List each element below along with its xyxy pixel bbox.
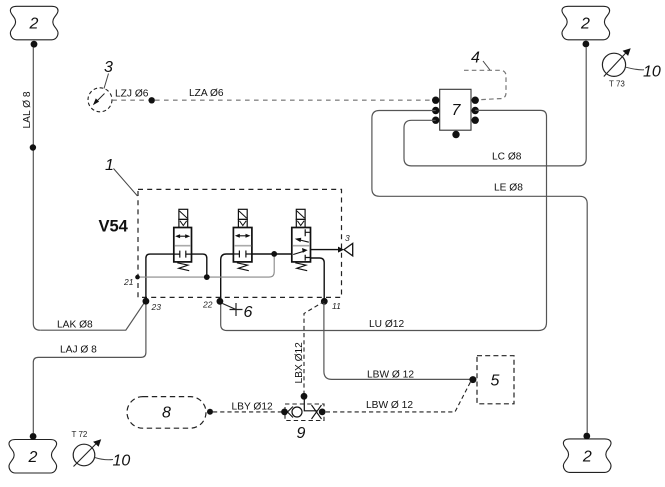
solenoid coil C — [296, 209, 305, 219]
svg-text:11: 11 — [332, 301, 341, 311]
junction dot LZJ/LZA — [149, 97, 155, 103]
shuttle left seat — [288, 407, 294, 418]
svg-text:7: 7 — [452, 102, 462, 119]
svg-text:LE Ø8: LE Ø8 — [494, 183, 523, 194]
wire LAK horizontal to node 23 — [40, 303, 144, 330]
junction dot 21 end — [135, 275, 140, 280]
node dot bottom-left — [30, 433, 37, 440]
blocked port C bottom — [305, 255, 310, 261]
flow arrow C top — [300, 240, 309, 242]
double arrow B — [237, 235, 248, 237]
wire valve B left port to node 22 — [221, 254, 234, 299]
wire LE from component 7 to bottom-right accumulator — [372, 111, 587, 434]
gauge 10 top-right (T73) — [602, 53, 625, 76]
svg-text:LZA Ø6: LZA Ø6 — [189, 88, 224, 99]
svg-text:9: 9 — [297, 425, 306, 442]
svg-text:LAK Ø8: LAK Ø8 — [57, 320, 93, 331]
wire valve C exhaust — [311, 249, 339, 251]
wire LBW dashed from shuttle valve to component 5 — [326, 381, 471, 412]
node dot top-right — [583, 41, 590, 48]
component 8 dashed reservoir — [127, 397, 206, 429]
svg-text:LZJ Ø6: LZJ Ø6 — [115, 89, 149, 100]
pin dots left of 7 — [432, 97, 439, 104]
svg-text:LBY Ø12: LBY Ø12 — [232, 402, 273, 413]
svg-text:LC Ø8: LC Ø8 — [492, 152, 522, 163]
spring B — [237, 263, 249, 271]
svg-text:LU Ø12: LU Ø12 — [369, 319, 404, 330]
node dot component 8 — [207, 409, 213, 415]
leader to 10 — [95, 458, 113, 460]
node 23 — [143, 298, 150, 305]
position divider A — [175, 245, 191, 247]
wire valve A right port to line 21 — [192, 254, 207, 275]
svg-text:2: 2 — [28, 449, 38, 466]
svg-text:21: 21 — [123, 277, 134, 287]
wire line 21 (gray pilot line) — [138, 256, 275, 278]
wire LZA dashed to component 7 — [155, 99, 432, 101]
exhaust arrowhead — [338, 247, 344, 253]
svg-text:4: 4 — [471, 50, 480, 67]
svg-text:LAL Ø 8: LAL Ø 8 — [22, 91, 33, 128]
pin dots right of 7 — [472, 97, 479, 104]
wire LAL vertical from top-left accumulator — [33, 48, 40, 331]
svg-text:8: 8 — [162, 405, 171, 422]
blocked ports A — [174, 251, 192, 258]
shuttle outlet line — [304, 399, 317, 411]
double arrow A — [178, 235, 188, 237]
svg-text:T 72: T 72 — [72, 430, 88, 439]
svg-text:5: 5 — [491, 373, 500, 390]
junction dot valve B/C line — [271, 251, 277, 257]
svg-text:10: 10 — [643, 64, 661, 81]
shuttle right seat X — [312, 405, 322, 419]
shuttle ball — [292, 407, 302, 417]
svg-text:3: 3 — [345, 233, 350, 243]
leader to 10 — [626, 67, 644, 70]
solenoid coil A — [179, 209, 188, 219]
wire LZJ dashed — [112, 99, 151, 101]
svg-text:V54: V54 — [99, 218, 129, 236]
flow arrow C bottom — [293, 252, 303, 255]
position divider C — [293, 245, 310, 247]
accumulator 2 (top-left) — [10, 6, 58, 40]
component 3 (pilot/sensor circle, dashed) — [88, 88, 112, 112]
arrow inside component 3 — [97, 94, 105, 102]
label 1 leader — [114, 169, 138, 197]
wire LBW solid from node 11 to component 5 — [324, 303, 470, 379]
svg-text:10: 10 — [113, 453, 131, 470]
shuttle valve 9 dashed enclosure — [285, 404, 324, 421]
blocked port C top — [305, 229, 310, 236]
gauge 10 bottom-left (T72) — [73, 444, 95, 466]
blocked ports B — [233, 251, 252, 258]
solenoid valve C (right, 3/2) — [292, 209, 311, 270]
junction dot on LAL — [30, 144, 36, 150]
wire LBX dashed from node 11 to shuttle valve — [304, 301, 324, 393]
wire LC from component 7 to top-right accumulator — [404, 48, 586, 166]
exhaust triangle port 3 — [344, 243, 353, 256]
solenoid coil B — [238, 209, 247, 219]
svg-text:LBX Ø12: LBX Ø12 — [294, 342, 305, 384]
svg-text:LAJ Ø 8: LAJ Ø 8 — [60, 345, 97, 356]
svg-text:6: 6 — [244, 304, 253, 321]
shuttle port dots — [281, 409, 288, 416]
node 22 — [217, 298, 224, 305]
solenoid valve A (left) — [174, 209, 192, 270]
valve body A — [174, 228, 192, 262]
spring A — [177, 263, 189, 271]
svg-text:T 73: T 73 — [609, 80, 625, 89]
pilot box A — [179, 219, 188, 227]
valve body B — [233, 228, 252, 262]
svg-text:1: 1 — [105, 157, 114, 174]
pilot box C — [296, 219, 305, 227]
svg-text:3: 3 — [104, 59, 113, 76]
label 6 leader with tick — [223, 303, 243, 316]
component 5 dashed box — [477, 356, 514, 404]
pin dot bottom of 7 — [452, 131, 459, 138]
wire LBY dashed — [213, 411, 282, 413]
svg-text:2: 2 — [582, 448, 592, 465]
wire 4 dashed loop into component 7 — [464, 70, 506, 100]
svg-text:LBW Ø 12: LBW Ø 12 — [367, 370, 414, 381]
wire LAJ from node 23 down to bottom-left accumulator — [33, 303, 146, 433]
junction dot valve A riser — [204, 274, 210, 280]
valve unit V54 dashed enclosure — [138, 189, 342, 297]
svg-text:LBW Ø 12: LBW Ø 12 — [366, 400, 413, 411]
accumulator 2 (bottom-left) — [9, 440, 57, 474]
node dot component 5 — [469, 376, 476, 383]
valve body C — [292, 228, 311, 262]
wire LU from component 7 to valve node 22 — [221, 110, 547, 330]
svg-text:2: 2 — [29, 16, 39, 33]
svg-text:22: 22 — [202, 300, 213, 310]
component 7 box — [440, 89, 471, 130]
wire valve B right port to valve C — [252, 253, 292, 255]
wire valve A left port to node 23 — [146, 254, 174, 299]
node 11 — [321, 298, 328, 305]
solenoid valve B (middle) — [233, 209, 252, 270]
pilot box B — [238, 219, 247, 227]
svg-text:2: 2 — [580, 16, 590, 33]
position divider B — [234, 245, 251, 247]
svg-text:23: 23 — [151, 302, 162, 312]
spring C — [295, 263, 307, 271]
node dot top-left — [31, 41, 38, 48]
label 4 leader — [483, 61, 490, 70]
label 3 leader — [104, 74, 109, 89]
wire valve C bottom port to node 11 — [311, 258, 325, 299]
accumulator 2 (bottom-right) — [563, 439, 611, 473]
node dot bottom-right — [583, 433, 590, 440]
accumulator 2 (top-right) — [562, 6, 610, 40]
